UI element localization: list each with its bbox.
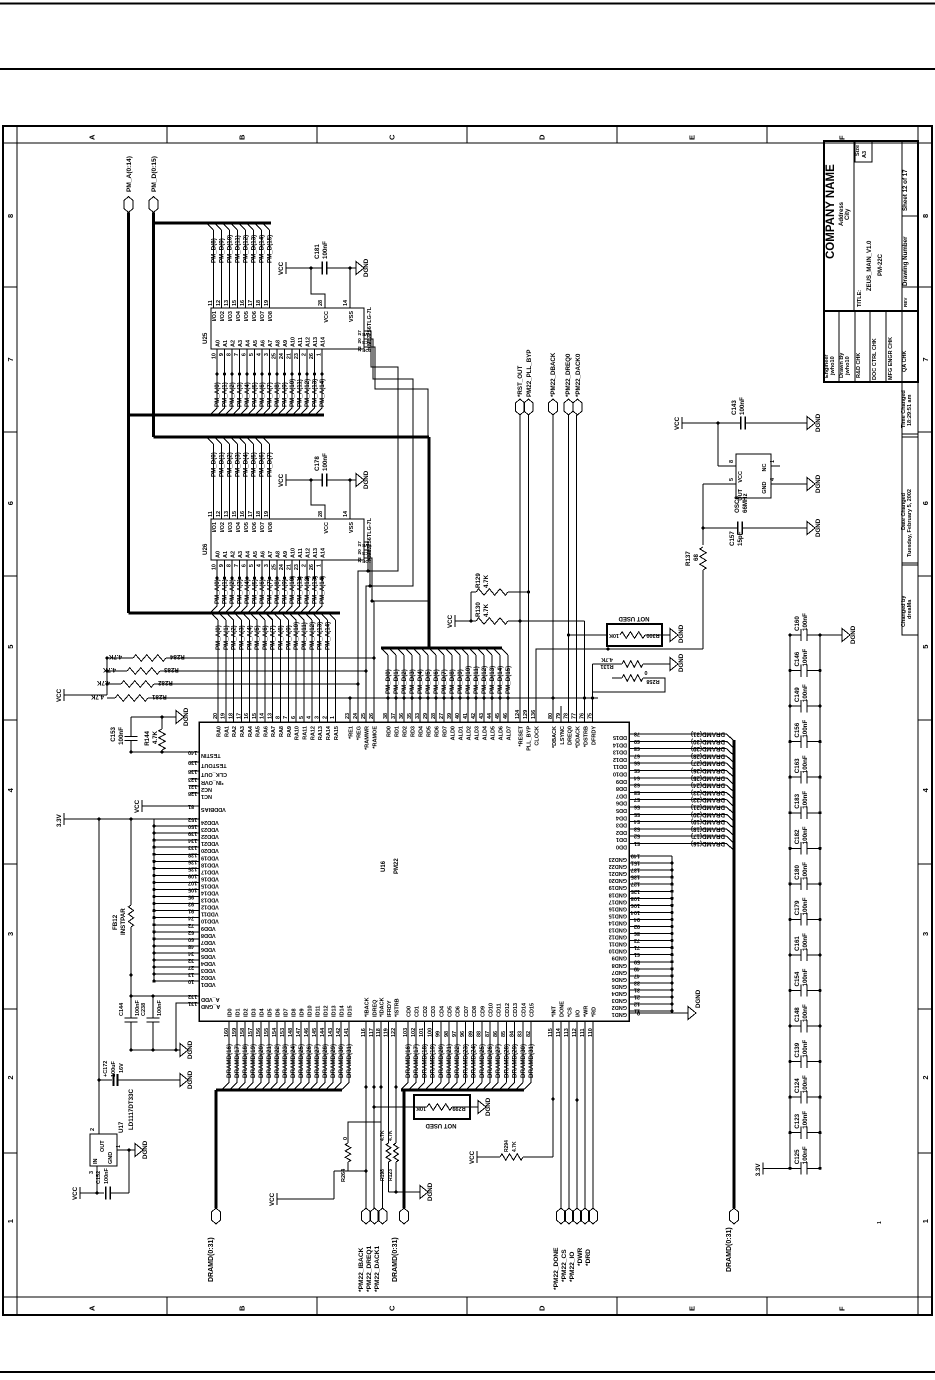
U16 pin 37 RD1 — [391, 713, 401, 737]
wire DD10 DRAMD(26) — [629, 767, 734, 777]
U16 pin 111 *WR — [580, 1006, 590, 1037]
svg-text:VDD23: VDD23 — [201, 826, 219, 832]
U16 pin 56 DD5 — [616, 804, 640, 814]
U25 pin 2 A12 — [302, 337, 312, 356]
regulator U17 LD1117DT33C — [89, 1128, 122, 1174]
svg-text:A14: A14 — [321, 336, 327, 347]
svg-text:PM_D(0): PM_D(0) — [211, 452, 218, 477]
U16 pin 155 ID5 — [264, 1008, 274, 1037]
svg-text:GND11: GND11 — [609, 941, 627, 947]
svg-text:100nF: 100nF — [802, 613, 809, 631]
wire ID15 DRAMD(31) — [342, 1021, 353, 1090]
svg-text:R144: R144 — [144, 730, 151, 745]
svg-text:PM_D(6): PM_D(6) — [259, 452, 266, 477]
U16 pin 46 ALD7 — [503, 713, 513, 741]
svg-text:CD3: CD3 — [431, 1006, 437, 1017]
svg-text:*RESET: *RESET — [519, 725, 525, 746]
U25 pin 6 A4 — [242, 339, 252, 356]
svg-text:23: 23 — [294, 353, 300, 359]
wire DD5 DRAMD(21) — [629, 804, 734, 814]
capacitor C152 100nF — [96, 1167, 129, 1199]
svg-text:3: 3 — [264, 353, 270, 356]
svg-text:10: 10 — [212, 564, 218, 570]
svg-text:140: 140 — [188, 749, 197, 755]
svg-text:C146: C146 — [794, 651, 801, 666]
svg-text:123: 123 — [188, 776, 197, 782]
svg-text:GND7: GND7 — [612, 969, 627, 975]
U25 pin 25 A8 — [272, 340, 282, 359]
svg-text:PM_A(13): PM_A(13) — [312, 379, 319, 407]
svg-text:R282: R282 — [157, 679, 172, 686]
svg-text:DREQ0: DREQ0 — [568, 726, 574, 745]
svg-text:I/O3: I/O3 — [228, 311, 234, 321]
svg-text:3: 3 — [6, 932, 15, 936]
svg-text:100nF: 100nF — [157, 999, 163, 1016]
svg-text:26: 26 — [309, 564, 315, 570]
U25 control pins — [357, 330, 372, 353]
svg-text:I/O6: I/O6 — [252, 311, 258, 321]
U25 pin 19 I/O8 — [264, 300, 274, 322]
page rule upper — [0, 68, 935, 70]
U16 pin 160 ID0 — [224, 1008, 234, 1037]
svg-text:R284: R284 — [169, 653, 184, 660]
U16 pin 140 TESTIN — [188, 749, 221, 758]
svg-text:PM_D(6): PM_D(6) — [433, 669, 440, 694]
svg-text:91: 91 — [188, 908, 194, 914]
svg-text:D: D — [538, 134, 547, 140]
svg-text:DGND: DGND — [363, 470, 370, 489]
svg-text:GND1: GND1 — [612, 1011, 627, 1017]
svg-text:109: 109 — [188, 872, 197, 878]
U16 pin 14 RA6 — [260, 712, 270, 737]
svg-text:RA5: RA5 — [256, 726, 262, 737]
label PM_A(0) — [215, 625, 222, 650]
svg-text:PM_A(5): PM_A(5) — [252, 382, 259, 407]
label PM_A(3) — [238, 625, 245, 650]
svg-text:43: 43 — [479, 713, 485, 719]
U16 pin 33 RD4 — [415, 713, 425, 737]
svg-text:GND14: GND14 — [608, 919, 627, 925]
svg-text:DGND: DGND — [695, 989, 702, 1008]
svg-text:R294: R294 — [504, 1140, 510, 1152]
U16 pin 3 RA13 — [314, 716, 324, 740]
U16 pin 63 DD8 — [616, 782, 640, 792]
bus DRAMD right — [733, 740, 736, 1208]
U16 pin 60 VDD7 — [152, 936, 215, 945]
wire U26 A14 to bus — [316, 560, 327, 613]
svg-text:138: 138 — [188, 768, 197, 774]
svg-text:QA CHK: QA CHK — [902, 350, 908, 372]
date changed cell — [901, 489, 913, 557]
U16 pin 58 DD7 — [616, 789, 640, 799]
wire DD11 DRAMD(27) — [629, 760, 734, 770]
wire I/O — [575, 1021, 578, 1208]
svg-text:21: 21 — [287, 564, 293, 570]
svg-text:DRAMD(20): DRAMD(20) — [691, 811, 725, 818]
size cell — [855, 145, 868, 158]
U25 pin 10 A0 — [212, 340, 222, 359]
U25 pin 18 I/O7 — [256, 300, 266, 322]
svg-text:14: 14 — [343, 510, 349, 517]
wire PM_D(12) to U16 — [478, 649, 489, 723]
U16 pin 26 *RAMOE — [369, 713, 379, 749]
wire DFRDY — [591, 664, 594, 722]
svg-text:127: 127 — [631, 881, 640, 887]
ground DGND U26 — [350, 470, 370, 489]
svg-text:DRAMD(28): DRAMD(28) — [322, 1044, 329, 1078]
wire U26 A11 to bus — [293, 560, 304, 613]
svg-text:DD5: DD5 — [616, 807, 627, 813]
wire U17 GND — [117, 1148, 135, 1193]
svg-text:DRAMD(22): DRAMD(22) — [691, 796, 725, 803]
svg-text:1: 1 — [116, 1145, 122, 1148]
svg-text:FB12: FB12 — [112, 914, 119, 930]
wire CD12 DRAMD(28) — [499, 1021, 510, 1090]
U16 pin 139 TESTOUT — [188, 759, 227, 768]
svg-text:PM_D(7): PM_D(7) — [441, 669, 448, 694]
U25 power pins — [318, 299, 355, 323]
U16 pin 125 VDD17 — [152, 865, 218, 874]
capacitor C178 100nF — [311, 453, 352, 487]
svg-text:PM_D(2): PM_D(2) — [227, 452, 234, 477]
U16 pin 124 *RESET — [515, 709, 525, 747]
svg-text:DRAMD(28): DRAMD(28) — [691, 752, 725, 759]
svg-text:17: 17 — [248, 511, 254, 517]
U16 pin 91 VDD11 — [152, 908, 218, 917]
U16 pin 92 GND13 — [609, 923, 674, 933]
svg-text:151: 151 — [631, 860, 640, 866]
wire PM_D(13) to U16 — [486, 649, 497, 723]
wire DD6 DRAMD(22) — [629, 796, 734, 806]
svg-text:*OE: *OE — [361, 347, 371, 353]
svg-text:A2: A2 — [231, 551, 237, 558]
svg-text:PLL_BYP: PLL_BYP — [527, 726, 533, 751]
U16 pin 103 CD0 — [403, 1006, 413, 1037]
U25 pin 21 A10 — [287, 337, 297, 359]
U16 pin 116 *IBACK — [361, 997, 371, 1037]
U16 pin 113 *CS — [564, 1007, 574, 1037]
svg-text:DRAMD(0:31): DRAMD(0:31) — [726, 1227, 733, 1272]
U16 pin 13 RA7 — [268, 713, 278, 737]
wire PM_D(14) to U16 — [494, 649, 505, 723]
svg-text:15: 15 — [232, 300, 238, 306]
svg-text:PM_D(0:15): PM_D(0:15) — [151, 156, 158, 192]
svg-text:IFRDY: IFRDY — [387, 1000, 393, 1017]
ground DGND R131 — [670, 653, 685, 672]
U16 pin 95 VDD13 — [152, 894, 218, 903]
wire CD8 DRAMD(24) — [467, 1021, 478, 1090]
svg-text:16V: 16V — [119, 1063, 125, 1073]
U16 pin 12 GND2 — [612, 1001, 674, 1011]
svg-text:VCC: VCC — [134, 799, 141, 813]
svg-text:33: 33 — [634, 979, 640, 985]
svg-text:96: 96 — [460, 1031, 466, 1037]
svg-text:64: 64 — [633, 774, 640, 780]
U16 pin 93 VDD12 — [152, 901, 218, 910]
U26 pin 5 A5 — [249, 551, 259, 567]
U16 pin 57 DD6 — [616, 796, 640, 806]
wire U26 A1 to bus — [218, 560, 229, 613]
wire GND rail — [671, 856, 673, 1013]
svg-text:A12: A12 — [306, 337, 312, 347]
svg-text:*IDACK: *IDACK — [380, 997, 386, 1017]
port *PM22_IO — [569, 1208, 582, 1282]
svg-text:6: 6 — [242, 564, 248, 567]
svg-text:ALD3: ALD3 — [475, 726, 481, 740]
svg-text:68: 68 — [693, 554, 700, 561]
U16 pin 112 I/O — [572, 1009, 582, 1037]
svg-text:COMPANY NAME: COMPANY NAME — [825, 164, 837, 259]
svg-text:*REG: *REG — [357, 726, 363, 740]
svg-text:PM_D(3): PM_D(3) — [409, 669, 416, 694]
svg-text:DRAMD(22): DRAMD(22) — [454, 1044, 461, 1078]
svg-text:4.7K: 4.7K — [601, 656, 613, 662]
svg-text:DGND: DGND — [815, 518, 822, 537]
svg-text:8: 8 — [275, 716, 281, 719]
svg-text:PM_A(9): PM_A(9) — [282, 579, 289, 604]
svg-text:VDD14: VDD14 — [200, 890, 219, 896]
svg-text:VDD19: VDD19 — [201, 854, 219, 860]
wire 3.3V rail down — [97, 819, 100, 1134]
svg-text:A: A — [88, 1305, 97, 1311]
U16 pin 73 GND11 — [609, 937, 674, 947]
wire PM_D(9) to U25 — [215, 223, 226, 308]
svg-text:CD7: CD7 — [464, 1006, 470, 1017]
title block — [824, 141, 918, 635]
svg-text:DD1: DD1 — [616, 836, 627, 842]
wire U25 A0 to bus — [211, 349, 222, 415]
bus U25 address — [129, 414, 325, 417]
wire TESTIN net — [129, 750, 199, 753]
frame zone letters bottom — [88, 1305, 847, 1311]
svg-text:PM_A(13): PM_A(13) — [317, 622, 324, 650]
wire U26 A5 to bus — [248, 560, 259, 613]
svg-text:A_GND: A_GND — [201, 1003, 220, 1009]
svg-text:A3: A3 — [238, 340, 244, 347]
wire cap rail right — [819, 635, 821, 1168]
U16 pin 34 VDD5 — [152, 950, 215, 959]
svg-text:66: 66 — [634, 760, 640, 766]
wire VCC to U25 pin 28 — [311, 268, 325, 308]
svg-text:DRAMD(30): DRAMD(30) — [338, 1044, 345, 1078]
U16 pin 80 *DBACK — [548, 713, 558, 748]
U16 part name PM22 — [394, 858, 400, 874]
wire CD6 DRAMD(22) — [450, 1021, 461, 1090]
svg-text:CD13: CD13 — [513, 1003, 519, 1017]
svg-text:PM_D(10): PM_D(10) — [465, 666, 472, 694]
label PM_A(7) — [270, 625, 277, 650]
svg-text:VDD21: VDD21 — [201, 840, 219, 846]
svg-text:*DWR: *DWR — [577, 1247, 584, 1266]
U16 pin 99 CD4 — [436, 1005, 446, 1037]
svg-text:60: 60 — [188, 936, 194, 942]
svg-text:15pF: 15pF — [737, 531, 744, 546]
svg-text:160: 160 — [224, 1028, 230, 1037]
U26 pin 12 I/O2 — [216, 511, 226, 533]
svg-text:100nF: 100nF — [802, 1111, 809, 1129]
svg-text:GND18: GND18 — [609, 891, 627, 897]
wire ID2 DRAMD(18) — [238, 1021, 249, 1090]
svg-text:A12: A12 — [306, 548, 312, 558]
svg-text:DRAMD(18): DRAMD(18) — [421, 1044, 428, 1078]
svg-text:GND5: GND5 — [612, 983, 627, 989]
svg-text:99: 99 — [436, 1031, 442, 1037]
power VCC U17 — [72, 1186, 104, 1200]
svg-text:VCC: VCC — [278, 261, 285, 275]
wire PM_D(11) to U25 — [231, 223, 242, 308]
svg-text:CLK_OUT: CLK_OUT — [200, 771, 227, 777]
wire RA15 — [329, 614, 336, 723]
svg-text:NOT USED: NOT USED — [618, 615, 650, 621]
svg-text:36: 36 — [399, 713, 405, 719]
wire U26 A13 to bus — [308, 560, 319, 613]
wire DD4 DRAMD(20) — [629, 811, 734, 821]
svg-text:26: 26 — [309, 353, 315, 359]
wire PM22_PLL_BYP — [527, 415, 530, 722]
U16 pin 150 VDD23 — [152, 823, 218, 832]
wire CD4 DRAMD(20) — [434, 1021, 445, 1090]
svg-text:*PM22_IO: *PM22_IO — [569, 1252, 576, 1282]
svg-text:D: D — [538, 1305, 547, 1311]
svg-text:*CS: *CS — [568, 1007, 574, 1017]
U16 pin 65 DD10 — [613, 767, 640, 777]
port *DWR — [577, 1208, 590, 1266]
wire CD0 DRAMD(16) — [401, 1021, 412, 1090]
svg-text:C154: C154 — [794, 971, 801, 986]
ground DGND IFRDY — [420, 1182, 434, 1201]
svg-text:PM_D(13): PM_D(13) — [489, 666, 496, 694]
svg-text:DRAMD(29): DRAMD(29) — [512, 1044, 519, 1078]
svg-text:100nF: 100nF — [802, 897, 809, 915]
time changed cell — [901, 390, 913, 428]
U16 pin 94 GND14 — [608, 916, 674, 926]
U16 pin 38 RD0 — [383, 713, 393, 737]
port PM22_PLL_BYP — [524, 350, 533, 415]
svg-text:E: E — [688, 1306, 697, 1311]
svg-text:Sheet 12 of 17: Sheet 12 of 17 — [902, 169, 909, 211]
memory U26 — [211, 519, 364, 560]
U16 pin 71 GND10 — [609, 944, 674, 954]
svg-text:59: 59 — [634, 958, 640, 964]
label PM_A(11) — [301, 622, 308, 650]
capacitor C238 100nF — [141, 996, 163, 1050]
svg-text:OSC6: OSC6 — [734, 496, 741, 513]
svg-text:DRAMD(31): DRAMD(31) — [528, 1044, 535, 1078]
wire CD7 DRAMD(23) — [458, 1021, 469, 1090]
svg-text:72: 72 — [188, 922, 194, 928]
svg-text:24: 24 — [279, 352, 285, 359]
U16 pin 72 VDD9 — [152, 922, 215, 931]
wire DFRDY lower — [592, 664, 594, 692]
svg-text:7: 7 — [921, 357, 930, 361]
wire PM_D(3) to U26 — [231, 437, 242, 519]
svg-text:4.7K: 4.7K — [512, 1141, 518, 1152]
svg-text:A9: A9 — [283, 340, 289, 347]
U16 pin 48 VDD6 — [152, 943, 215, 952]
svg-text:PM_D(2): PM_D(2) — [401, 669, 408, 694]
ground DGND C172 — [180, 1070, 194, 1089]
svg-text:107: 107 — [188, 879, 197, 885]
wire RA10 — [290, 614, 297, 723]
svg-text:GND12: GND12 — [609, 934, 627, 940]
U16 pin 5 RA11 — [299, 716, 309, 740]
U26 pin 9 A1 — [219, 551, 229, 567]
U16 pin 59 GND8 — [612, 958, 674, 968]
U16 pin 136 CLOCK — [531, 710, 541, 746]
svg-text:PM_A(11): PM_A(11) — [301, 622, 308, 650]
svg-text:PM_A(11): PM_A(11) — [297, 379, 304, 407]
U16 pin 151 GND22 — [609, 860, 674, 870]
wire DD15 DRAMD(31) — [629, 731, 734, 741]
svg-text:34: 34 — [187, 950, 194, 956]
capacitor C180 100nF — [788, 862, 821, 890]
svg-text:4.7K: 4.7K — [90, 693, 104, 700]
svg-text:128: 128 — [188, 851, 197, 857]
svg-text:156: 156 — [256, 1028, 262, 1037]
label PM_A(8) — [278, 625, 285, 650]
wire DD13 DRAMD(29) — [629, 745, 734, 755]
resistor R283 4.7K — [102, 666, 367, 674]
svg-text:95: 95 — [188, 894, 194, 900]
power flag 3.3V rail — [56, 813, 154, 827]
wire *PM22_DBACK — [551, 415, 554, 722]
svg-text:DRAMD(22): DRAMD(22) — [274, 1044, 281, 1078]
U16 pin 106 GND16 — [609, 902, 674, 912]
svg-text:104: 104 — [630, 909, 640, 915]
frame zone numbers left — [6, 214, 15, 1223]
checker cells — [824, 337, 908, 380]
U25 pin 12 I/O2 — [216, 300, 226, 322]
svg-text:71: 71 — [634, 944, 640, 950]
capacitor C144 100nF — [119, 996, 141, 1050]
svg-text:A5: A5 — [253, 340, 259, 347]
svg-text:R137: R137 — [685, 551, 692, 566]
svg-text:C182: C182 — [794, 829, 801, 844]
svg-text:*PM22_DACK1: *PM22_DACK1 — [374, 1245, 381, 1292]
svg-text:5: 5 — [249, 564, 255, 567]
svg-text:DD6: DD6 — [616, 800, 627, 806]
U25 pin 17 I/O6 — [248, 300, 258, 322]
resistor R258 0 — [593, 669, 666, 692]
svg-text:7: 7 — [234, 353, 240, 356]
U16 pin 51 DD0 — [616, 840, 640, 850]
svg-text:jwho10: jwho10 — [830, 356, 836, 376]
svg-text:35: 35 — [407, 713, 413, 719]
svg-text:PM_D(1): PM_D(1) — [219, 452, 226, 477]
U16 pin 101 CD2 — [419, 1006, 429, 1037]
wire RA6 — [258, 614, 265, 723]
svg-text:101: 101 — [419, 1028, 425, 1037]
svg-text:RA3: RA3 — [240, 726, 246, 737]
svg-text:PM_D(14): PM_D(14) — [259, 235, 266, 263]
svg-text:DRAMD(18): DRAMD(18) — [691, 825, 725, 832]
svg-text:DRAMD(31): DRAMD(31) — [346, 1044, 353, 1078]
svg-text:*PM22_DBACK: *PM22_DBACK — [550, 352, 557, 397]
svg-text:U25: U25 — [202, 332, 209, 344]
wire OSC NC stub — [771, 465, 780, 467]
svg-text:PM_D(4): PM_D(4) — [243, 452, 250, 477]
svg-text:PM_A(3): PM_A(3) — [238, 625, 245, 650]
wire CD5 DRAMD(21) — [442, 1021, 453, 1090]
svg-text:25: 25 — [272, 564, 278, 570]
svg-text:4.7K: 4.7K — [102, 666, 116, 673]
resistor R130 4.7K — [475, 602, 585, 625]
svg-text:RD3: RD3 — [411, 726, 417, 737]
svg-text:PM_A(7): PM_A(7) — [267, 382, 274, 407]
svg-text:58: 58 — [634, 789, 640, 795]
svg-text:CLOCK: CLOCK — [535, 726, 541, 746]
power flag 3.3V caps — [755, 1162, 792, 1176]
